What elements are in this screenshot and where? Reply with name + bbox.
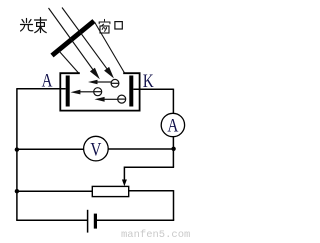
- battery long plate (+): [87, 210, 89, 233]
- battery short plate (-): [94, 214, 97, 229]
- wire: electrode A to left rail: [17, 88, 66, 90]
- rheostat box: [92, 186, 128, 196]
- wire: left rail (vertical): [16, 88, 18, 220]
- ammeter A: [161, 113, 184, 136]
- electron e3 (circle with minus): [118, 95, 126, 103]
- wire: junction down to slider branch: [172, 149, 174, 167]
- funnel line left (from window bar to tube top): [59, 51, 79, 74]
- funnel line right (from window bar to tube top): [95, 22, 125, 73]
- electron e3 arrow (moving toward A): [95, 97, 118, 102]
- wire: right rail down: [173, 190, 175, 220]
- wire: bottom rail left segment: [16, 219, 87, 221]
- svg-text:A: A: [167, 117, 179, 137]
- wire: slider branch horizontal: [124, 166, 174, 168]
- electron e1 arrow (moving toward A): [88, 80, 111, 85]
- window bar (thick): [52, 21, 94, 56]
- light ray 1 with arrowhead: [49, 8, 100, 79]
- junction dot left (voltmeter branch): [15, 147, 19, 151]
- wire: left rail to rheostat: [17, 190, 92, 192]
- slider arrow onto rheostat: [122, 180, 127, 187]
- voltmeter V: [84, 136, 109, 161]
- phototube envelope (top edge open between funnel lines = window): [60, 73, 139, 110]
- wire: down from K corner to ammeter: [172, 89, 174, 114]
- wire: bottom rail right segment: [97, 219, 174, 221]
- wire: slider drop: [123, 167, 125, 181]
- electrode K (cathode plate): [129, 76, 133, 107]
- label 窗口 (window) drawn as strokes: [99, 19, 122, 33]
- wire: rheostat right to right rail: [129, 190, 174, 192]
- label 光束 (light beam) drawn as strokes: [21, 18, 47, 33]
- electron e2 arrow (moving toward A): [71, 90, 94, 95]
- 口: [115, 22, 122, 29]
- wire: voltmeter to right junction: [108, 148, 173, 150]
- wire: electrode K to ammeter corner: [133, 88, 173, 90]
- junction dot right: [171, 147, 175, 151]
- svg-text:manfen5.com: manfen5.com: [121, 229, 190, 238]
- electron e1 (circle with minus): [111, 79, 119, 87]
- junction dot left (rheostat branch): [15, 189, 19, 193]
- svg-text:V: V: [90, 140, 102, 160]
- light ray 2 with arrowhead: [62, 8, 114, 79]
- electrode A (anode plate): [66, 76, 70, 107]
- wire: ammeter bottom to junction: [172, 137, 174, 149]
- wire: voltmeter branch left: [17, 148, 84, 150]
- electron e2 (circle with minus): [94, 88, 102, 96]
